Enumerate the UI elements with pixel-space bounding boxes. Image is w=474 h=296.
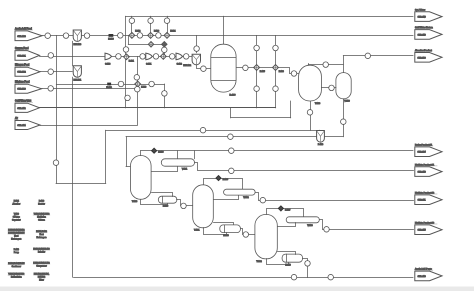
svg-text:E-103: E-103	[158, 152, 164, 154]
svg-text:Condenser: Condenser	[12, 265, 22, 268]
svg-text:E-105: E-105	[260, 71, 265, 73]
svg-text:Pump: Pump	[14, 252, 19, 254]
svg-text:T-100: T-100	[132, 201, 138, 203]
svg-text:STR-103: STR-103	[17, 89, 26, 91]
svg-text:T-101: T-101	[194, 230, 200, 232]
svg-text:Mixer: Mixer	[39, 278, 44, 281]
svg-text:C-101: C-101	[146, 64, 151, 66]
svg-text:STR-116: STR-116	[418, 17, 427, 19]
svg-text:T-102: T-102	[256, 261, 262, 263]
svg-text:E-107: E-107	[285, 209, 291, 211]
svg-text:STR-114: STR-114	[17, 125, 26, 127]
svg-text:Exchangers: Exchangers	[11, 237, 21, 240]
svg-text:Column: Column	[38, 219, 45, 221]
svg-text:C-100: C-100	[105, 64, 110, 66]
svg-text:Reflux Drum: Reflux Drum	[11, 275, 22, 278]
svg-text:STR-110: STR-110	[418, 172, 427, 174]
svg-text:E-108: E-108	[163, 206, 169, 208]
svg-text:STR-115: STR-115	[418, 230, 427, 232]
svg-text:STR-112: STR-112	[17, 108, 26, 110]
svg-text:Reboiler: Reboiler	[38, 250, 45, 253]
svg-text:V-103: V-103	[307, 225, 313, 227]
svg-text:R-100: R-100	[230, 94, 237, 96]
svg-text:Reactor: Reactor	[38, 202, 45, 205]
svg-text:E-103: E-103	[154, 30, 159, 32]
svg-text:E-106: E-106	[279, 71, 284, 73]
svg-text:Heat: Heat	[40, 233, 44, 236]
svg-text:E-100: E-100	[108, 39, 114, 41]
svg-text:STR-111: STR-111	[418, 200, 427, 202]
svg-text:P-100: P-100	[318, 144, 324, 146]
svg-text:E-101: E-101	[129, 61, 134, 63]
svg-text:E-101: E-101	[106, 87, 112, 89]
svg-text:E-102: E-102	[135, 30, 140, 32]
svg-text:3 Phase: 3 Phase	[13, 216, 20, 218]
svg-text:V-100: V-100	[344, 101, 350, 103]
svg-text:STR-100: STR-100	[17, 36, 26, 38]
svg-text:E-110: E-110	[285, 265, 291, 267]
svg-text:MIX-102: MIX-102	[183, 65, 191, 67]
svg-text:MIX-100: MIX-100	[74, 44, 82, 46]
svg-text:STR-113: STR-113	[418, 34, 427, 36]
svg-text:T-103: T-103	[315, 103, 321, 105]
svg-text:Separator: Separator	[12, 218, 21, 221]
svg-text:Distillation: Distillation	[37, 215, 46, 218]
svg-text:Compressor: Compressor	[36, 264, 47, 267]
svg-text:K-100: K-100	[141, 86, 146, 88]
svg-text:C-102: C-102	[177, 64, 182, 66]
svg-text:E-104: E-104	[170, 30, 175, 32]
svg-text:STR-101: STR-101	[17, 55, 26, 57]
svg-text:MIX-101: MIX-101	[74, 80, 82, 82]
svg-text:V-102: V-102	[243, 197, 249, 199]
svg-text:Absorber: Absorber	[12, 202, 20, 205]
svg-text:Exchangers: Exchangers	[37, 236, 47, 239]
svg-text:E-109: E-109	[223, 235, 229, 237]
svg-text:STR-102: STR-102	[17, 72, 26, 74]
svg-text:STR-109: STR-109	[417, 152, 426, 154]
svg-text:STR-118: STR-118	[418, 276, 427, 278]
svg-text:V-101: V-101	[182, 168, 188, 170]
svg-text:STR-108: STR-108	[417, 57, 426, 59]
svg-text:Heat: Heat	[14, 234, 18, 237]
svg-text:E-105: E-105	[223, 179, 229, 181]
